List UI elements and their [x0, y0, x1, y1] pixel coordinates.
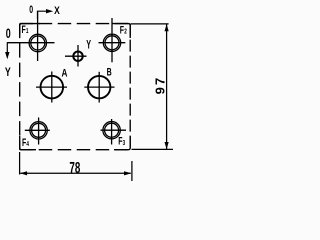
svg-text:Y: Y: [86, 39, 91, 52]
svg-text:Y: Y: [5, 65, 11, 79]
svg-text:A: A: [62, 67, 68, 80]
svg-text:0: 0: [29, 3, 33, 15]
svg-text:3: 3: [123, 139, 126, 147]
svg-text:4: 4: [26, 140, 29, 148]
svg-text:0: 0: [6, 27, 11, 41]
svg-text:2: 2: [124, 28, 127, 36]
svg-text:78: 78: [69, 158, 80, 176]
svg-text:97: 97: [152, 76, 167, 95]
svg-text:X: X: [54, 5, 60, 17]
svg-text:B: B: [107, 66, 112, 79]
svg-text:1: 1: [26, 27, 29, 35]
